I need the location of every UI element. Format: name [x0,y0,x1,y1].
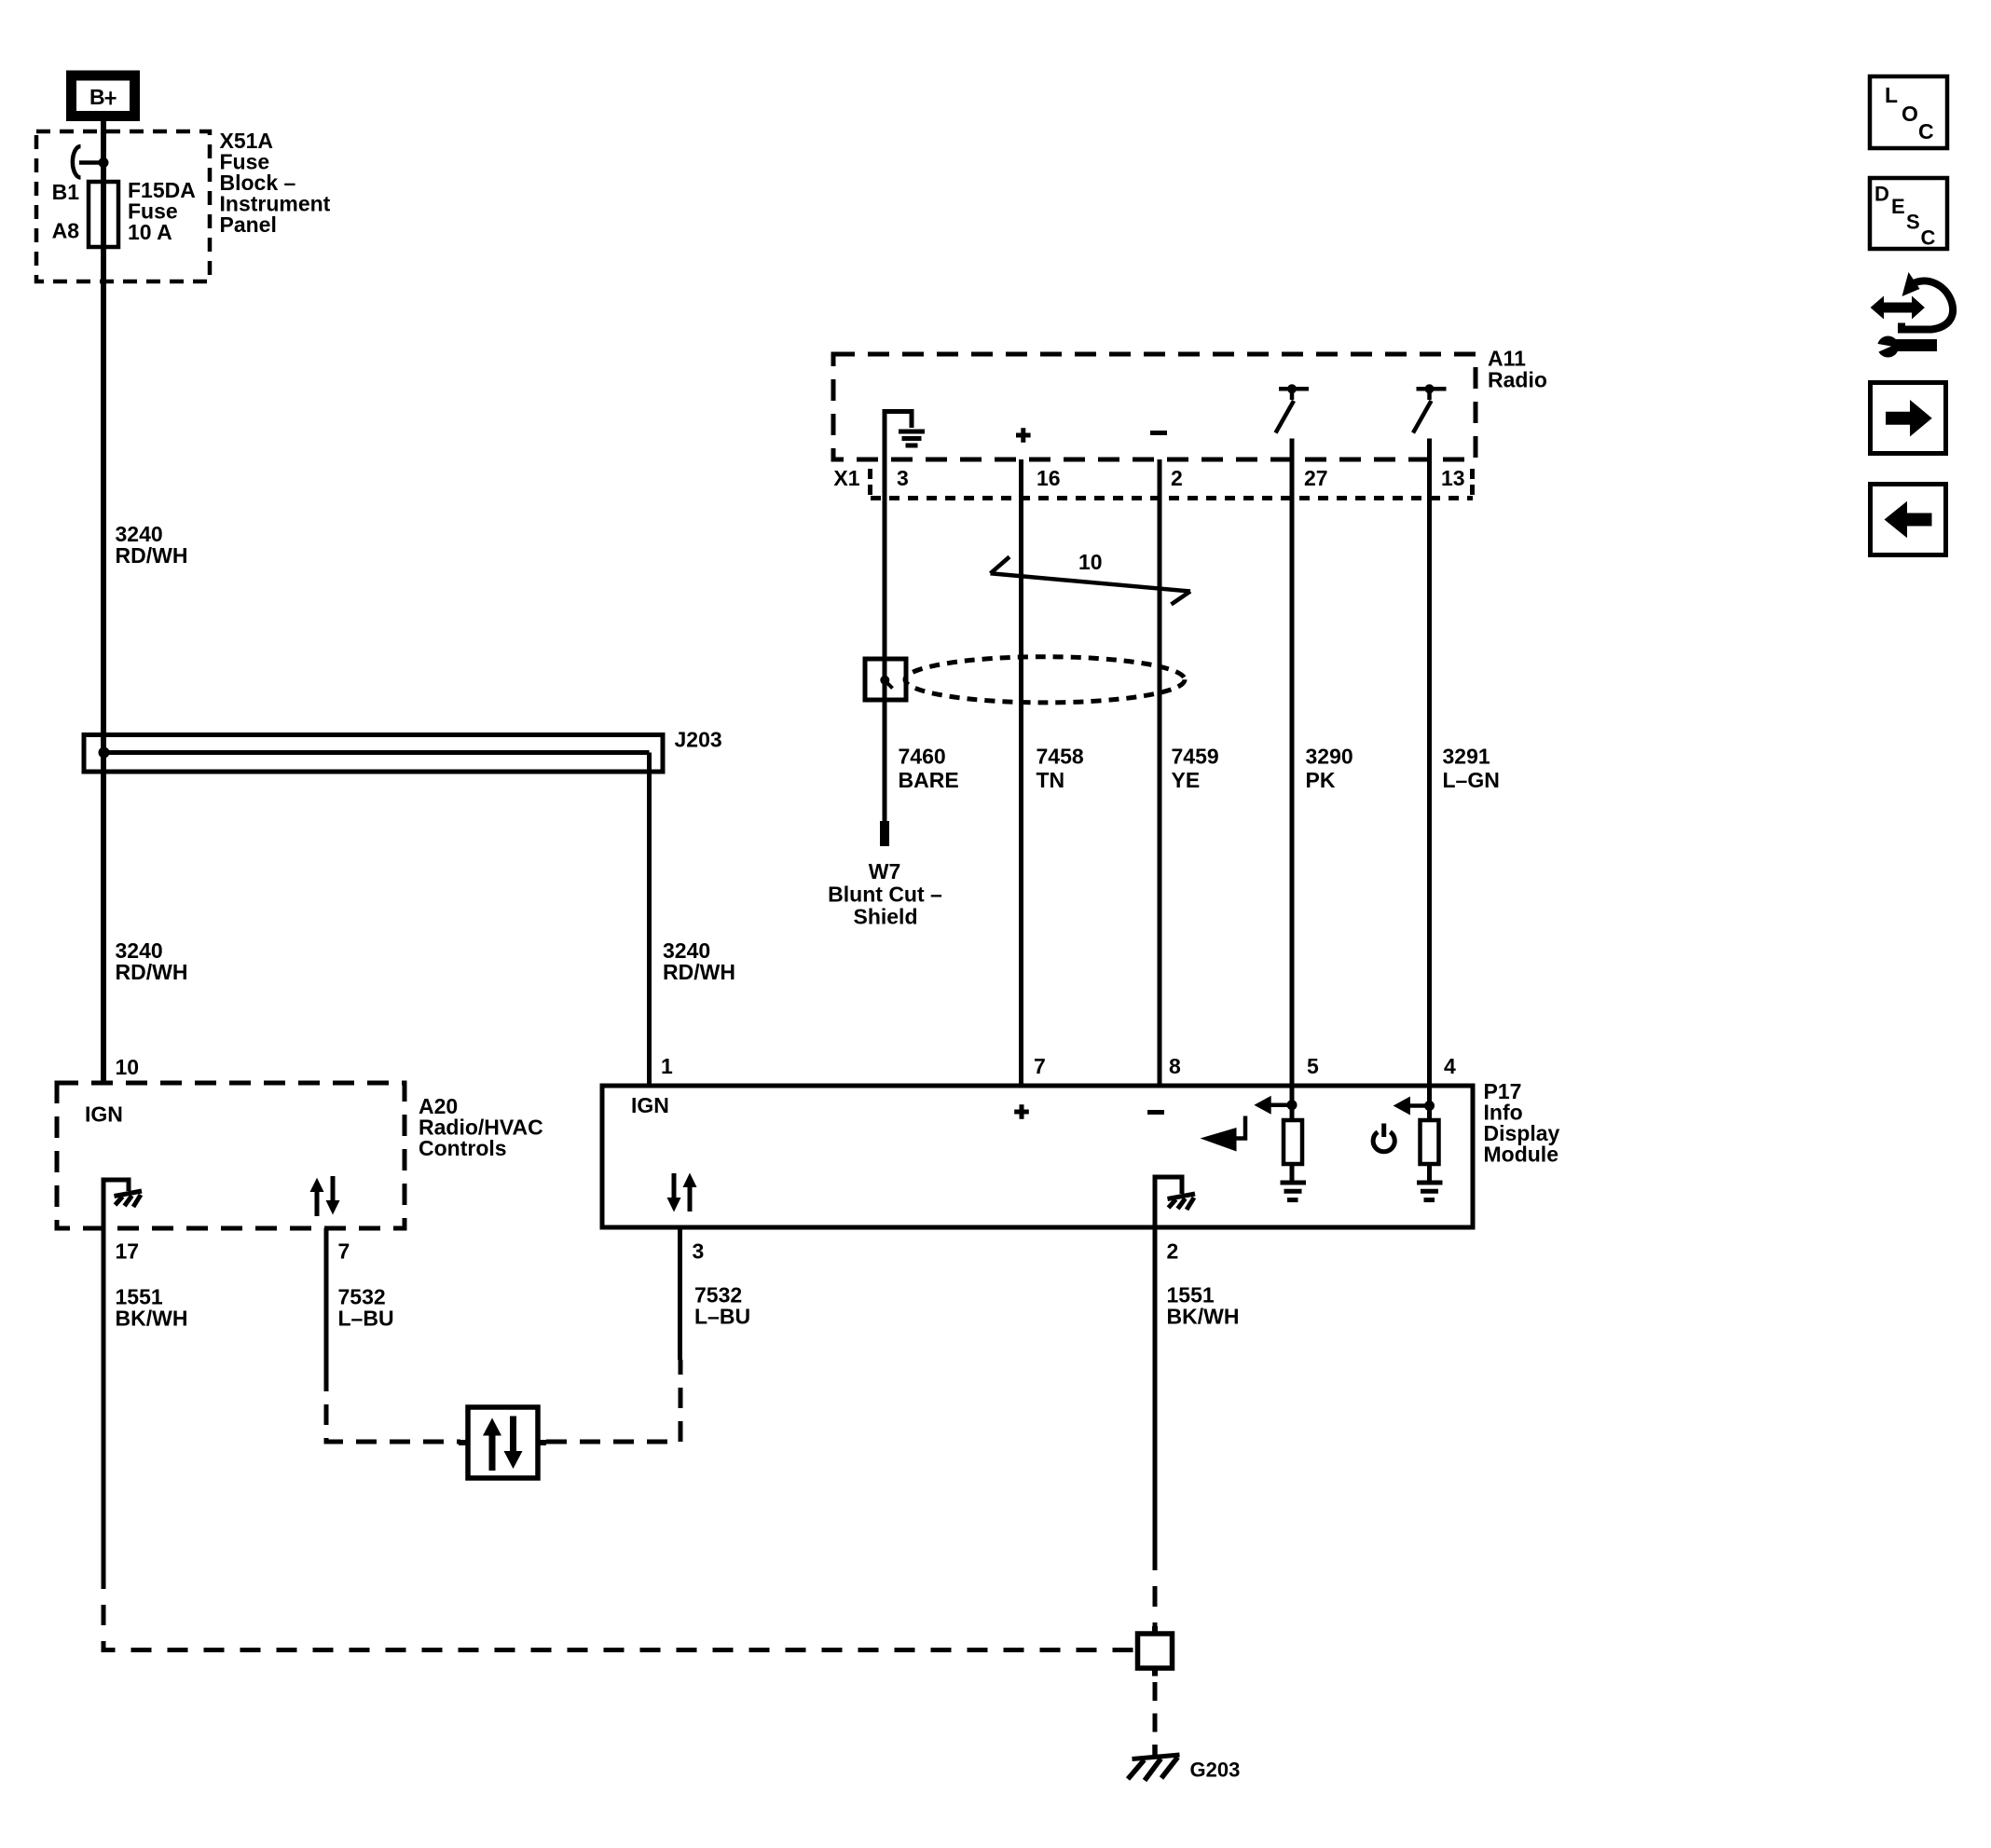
svg-text:2: 2 [1171,466,1183,490]
svg-text:17: 17 [116,1239,140,1264]
svg-text:7532L–BU: 7532L–BU [338,1285,394,1331]
svg-text:2: 2 [1167,1239,1179,1264]
power symbol inside P17 [1373,1124,1394,1152]
W7 blunt cut shield termination box [865,659,906,700]
svg-text:1: 1 [661,1054,673,1078]
resistor with arrow at P17 pin 4 [1394,1086,1443,1200]
svg-text:13: 13 [1441,466,1465,490]
callout arrow for circuit 10 shield [991,557,1191,605]
chassis ground symbol inside A20 pin 17 [103,1180,142,1228]
B+ battery positive terminal [72,75,135,116]
inline splice box at ground path junction [1138,1626,1173,1677]
wire 7532 L-BU from P17 pin 3 (solid part) [678,1227,682,1360]
splice J203 [84,728,722,773]
svg-text:G203: G203 [1190,1759,1241,1782]
chassis ground symbol inside P17 pin 2 [1155,1177,1195,1227]
svg-text:J203: J203 [675,728,722,752]
wire 3290 PK radio pin 27 to P17 pin 5 [1290,439,1295,1087]
wire 7458 TN radio pin 16 to P17 pin 7 [1019,459,1023,1086]
wire 7532 L-BU from A20 pin 7 (solid part) [324,1228,329,1371]
plus symbol radio pin 16 [1016,428,1031,443]
svg-text:IGN: IGN [85,1102,123,1127]
svg-text:C: C [1921,226,1936,250]
svg-text:E: E [1891,195,1905,218]
serial data dashed wire to P17 pin 3 [546,1360,680,1442]
resistor with arrow at P17 pin 5 [1254,1086,1306,1200]
shield ellipse (dashed) [905,657,1185,703]
return arrow symbol inside P17 [1201,1116,1246,1152]
svg-text:A8: A8 [52,219,80,243]
svg-text:L: L [1885,83,1898,107]
svg-text:7: 7 [1034,1054,1046,1078]
svg-text:Blunt Cut –: Blunt Cut – [828,883,942,907]
svg-text:S: S [1906,211,1920,234]
wire 1551 BK/WH from P17 pin 2 (solid part) [1153,1227,1158,1550]
svg-text:O: O [1902,102,1918,126]
ground symbol inside radio pin 3 [885,412,925,460]
wire 7532 L-BU dashed to serial data symbol [326,1371,460,1442]
svg-text:8: 8 [1169,1054,1181,1078]
svg-text:7: 7 [338,1239,350,1264]
svg-text:C: C [1918,119,1934,144]
svg-text:IGN: IGN [631,1093,669,1117]
svg-text:W7: W7 [869,859,901,883]
svg-text:5: 5 [1307,1054,1319,1078]
serial data arrows inside A20 pin 7 [310,1176,340,1216]
wire 1551 BK/WH from A20 pin 17 (solid part) [102,1228,106,1568]
fuse F15DA 10A [89,182,118,247]
sidebar icon arrow previous [1871,485,1946,555]
svg-text:10: 10 [116,1055,140,1079]
X1 connector left bracket [868,469,872,495]
svg-text:27: 27 [1304,466,1328,490]
X1 connector row dotted line [871,496,1473,500]
svg-text:7532L–BU: 7532L–BU [694,1283,750,1329]
svg-text:3: 3 [693,1239,705,1264]
fuse holder clip [73,146,109,178]
svg-text:B: B [89,85,105,109]
wire 7460 BARE shield drain [883,459,887,821]
minus symbol radio pin 2 [1150,431,1167,435]
switch symbol radio pin 27 [1276,384,1310,432]
switch symbol radio pin 13 [1413,384,1447,432]
P17 Info Display Module box [602,1086,1473,1227]
blunt cut end of wire 7460 [880,821,889,846]
wire 1551 BK/WH dashed to splice box [1153,1550,1158,1634]
wire 1551 BK/WH dashed to splice [103,1568,1135,1650]
wire 3291 L-GN radio pin 13 to P17 pin 4 [1427,439,1432,1087]
A20 Radio/HVAC Controls dashed box [57,1083,405,1228]
fuse block dashed box X51A [36,131,210,281]
sidebar icon DESC [1870,178,1947,250]
wire 3240 RD/WH power feed from B+ to J203 and A20 pin 10 [101,119,106,1083]
sidebar icon LOC [1870,76,1947,148]
plus symbol P17 pin 7 [1014,1104,1029,1119]
serial data arrows inside P17 pin 3 [667,1173,697,1212]
svg-text:B1: B1 [52,180,80,204]
svg-text:10: 10 [1078,550,1103,574]
ground G203 chassis symbol [1128,1745,1180,1781]
dashed wire from splice box to G203 [1153,1682,1158,1745]
minus symbol P17 pin 8 [1147,1110,1164,1115]
svg-text:Shield: Shield [853,905,917,929]
svg-text:16: 16 [1037,466,1061,490]
A11 Radio dashed box [833,354,1476,459]
serial data symbol box [459,1407,546,1478]
sidebar icon arrow next [1871,383,1946,454]
wire 7459 YE radio pin 2 to P17 pin 8 [1158,459,1162,1086]
X1 connector right bracket [1470,469,1475,495]
svg-text:D: D [1874,183,1889,206]
svg-text:3: 3 [897,466,909,490]
wire 3240 RD/WH right branch from J203 to P17 pin 1 [647,753,652,1087]
svg-text:X1: X1 [833,466,859,490]
sidebar icon redo-loop with wrench [1871,272,1953,358]
svg-text:4: 4 [1444,1054,1456,1078]
